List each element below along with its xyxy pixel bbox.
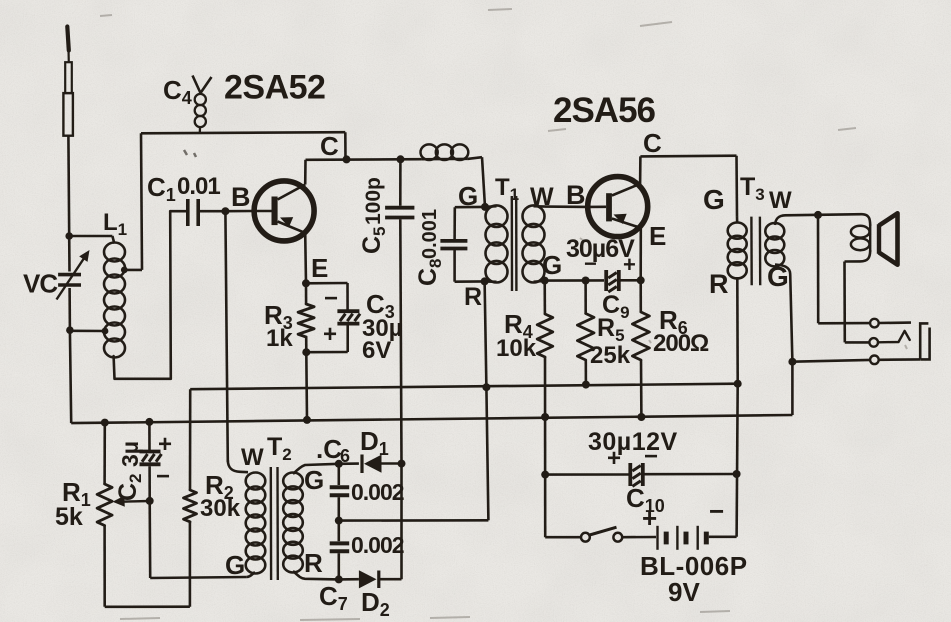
wire <box>453 207 456 240</box>
svg-text:W: W <box>241 444 264 471</box>
node C5 tee <box>397 155 405 163</box>
node VC-L1tap <box>66 326 74 334</box>
label minus C10 <box>644 443 658 470</box>
wire <box>709 535 737 538</box>
svg-text:+: + <box>323 321 337 348</box>
wire <box>67 136 70 236</box>
label R T3 <box>709 269 729 299</box>
transformer T1 primary <box>486 205 508 282</box>
node R6 bus2 <box>637 413 645 421</box>
svg-text:30k: 30k <box>200 495 241 522</box>
capacitor C4 gimmick <box>193 76 212 134</box>
node R5 top <box>582 277 590 285</box>
wiper arrow <box>113 496 150 507</box>
svg-text:G: G <box>225 550 245 580</box>
svg-text:C: C <box>643 128 662 158</box>
transformer T3 secondary <box>765 223 784 266</box>
transformer T2 secondary <box>283 464 339 580</box>
wire <box>344 132 347 159</box>
svg-text:VC: VC <box>23 269 58 299</box>
label minus battery <box>709 496 724 526</box>
node R3C3 bus2 <box>303 416 311 424</box>
wire <box>346 325 349 352</box>
svg-text:+: + <box>158 431 172 458</box>
node jack tip feed <box>814 211 822 219</box>
label minus C2 <box>156 463 170 490</box>
label D1 <box>360 426 389 459</box>
svg-text:30µ12V: 30µ12V <box>588 428 678 456</box>
label 2SA52 <box>224 69 325 107</box>
capacitor C3 <box>337 311 360 323</box>
jack contact 2 <box>869 338 878 347</box>
wire <box>339 519 489 522</box>
antenna mast tip <box>67 27 69 51</box>
wire <box>791 362 794 415</box>
label T1 <box>495 174 519 204</box>
label G T3 bottom <box>767 261 789 292</box>
svg-text:E: E <box>311 253 328 283</box>
label C9 <box>602 291 630 322</box>
wire <box>68 236 71 272</box>
label B Q1 <box>231 182 251 212</box>
wire <box>736 277 739 384</box>
jack contact 1 <box>870 319 879 328</box>
label W T2 <box>241 444 264 471</box>
label G T1 top <box>458 181 478 211</box>
svg-text:25k: 25k <box>590 342 631 369</box>
svg-text:−: − <box>709 496 724 526</box>
node C1-B <box>221 207 229 215</box>
wire <box>545 536 581 539</box>
label plus C3 <box>323 321 337 348</box>
resistor R6 <box>632 280 649 417</box>
label C Q2 <box>643 128 662 158</box>
wire <box>482 157 485 207</box>
wire <box>150 577 246 578</box>
label minus C3 <box>324 285 338 312</box>
svg-text:10k: 10k <box>496 335 537 362</box>
label 0.002 upper <box>351 479 404 505</box>
battery BL-006P <box>658 526 707 550</box>
wire <box>879 358 920 361</box>
wire <box>306 351 347 354</box>
wire <box>114 211 171 379</box>
node antenna-L1 <box>65 232 73 240</box>
resistor R5 <box>577 281 594 385</box>
svg-text:E: E <box>649 221 666 251</box>
wire speaker return <box>843 262 846 343</box>
label BL-006P <box>640 551 748 581</box>
wire <box>141 133 142 270</box>
node wiper <box>146 497 154 505</box>
svg-text:+: + <box>623 252 636 277</box>
label T3 <box>740 173 765 204</box>
svg-text:+: + <box>607 445 621 472</box>
svg-text:B: B <box>566 180 586 210</box>
node T1 G <box>481 203 489 211</box>
transformer T1 secondary <box>523 205 545 282</box>
label 30u6V C9 <box>566 235 635 263</box>
label minus C9 <box>584 251 597 276</box>
label C4 <box>163 75 192 108</box>
wire <box>485 281 487 387</box>
label R T2 sec bottom <box>304 548 323 578</box>
svg-text:0.002: 0.002 <box>351 532 404 558</box>
diode D2 <box>359 570 402 588</box>
label G T2 sec top <box>304 465 324 495</box>
wire <box>818 322 870 325</box>
wire <box>306 282 348 285</box>
svg-text:G: G <box>703 184 725 215</box>
node bus1 right end <box>734 380 742 388</box>
svg-text:+: + <box>642 503 657 533</box>
label VC <box>23 269 58 299</box>
wire <box>486 387 488 520</box>
label R2 30k <box>200 470 241 522</box>
label C1 0.01 <box>147 172 220 205</box>
label E Q2 <box>649 221 666 251</box>
switch S1 <box>581 527 622 541</box>
label 9V <box>668 577 700 607</box>
transformer T3 primary <box>728 223 747 279</box>
label 0.002 lower <box>351 532 404 558</box>
wire T3 sec bottom <box>775 265 792 362</box>
label R4 10k <box>496 309 537 362</box>
wire <box>148 501 151 578</box>
scan smudges <box>184 150 196 157</box>
node D1 right <box>398 460 406 468</box>
svg-text:3µ: 3µ <box>117 441 143 467</box>
transformer T3 core <box>751 217 760 286</box>
jack spring <box>878 331 910 342</box>
capacitor C6 0.002 <box>330 464 350 521</box>
svg-text:.C: .C <box>316 434 342 464</box>
wire <box>845 341 870 344</box>
speaker horn <box>877 213 898 264</box>
label C2 3u <box>114 441 145 501</box>
label plus C10 <box>607 445 621 472</box>
node T1 sec bottom <box>541 277 549 285</box>
capacitor C9 <box>606 270 619 292</box>
node collector bus <box>343 155 351 163</box>
svg-text:−: − <box>584 251 597 276</box>
label C6 <box>316 434 350 466</box>
svg-text:0.002: 0.002 <box>351 479 404 505</box>
wire <box>735 156 738 224</box>
node T1R bus1 <box>482 383 490 391</box>
svg-text:W: W <box>769 187 792 214</box>
wire <box>453 249 456 282</box>
label C10 <box>626 483 665 516</box>
node L1 tap bottom <box>102 328 109 335</box>
label G T1 bottom <box>542 250 562 280</box>
node E block top <box>302 279 310 287</box>
antenna segment 2 <box>63 93 73 136</box>
capacitor C5 <box>385 159 414 463</box>
svg-text:2SA56: 2SA56 <box>553 91 656 130</box>
wire collector Q2 <box>639 156 642 183</box>
resistor R3 <box>298 283 314 352</box>
antenna segment 1 <box>65 62 72 93</box>
svg-text:G: G <box>542 250 562 280</box>
node R5 bus1 <box>582 381 590 389</box>
wire <box>70 330 71 423</box>
wire <box>68 288 71 330</box>
svg-text:R: R <box>464 283 482 311</box>
wire <box>817 215 820 323</box>
wire <box>105 605 190 608</box>
label B Q2 <box>566 180 586 210</box>
node C6 top <box>335 460 343 468</box>
svg-text:−: − <box>324 285 338 312</box>
wire bus2 <box>71 415 792 423</box>
svg-text:6V: 6V <box>362 337 391 364</box>
label T2 <box>267 433 292 464</box>
wire <box>70 329 105 332</box>
wire <box>400 464 403 580</box>
label 6V <box>362 337 391 364</box>
wire <box>485 206 545 282</box>
svg-text:2SA52: 2SA52 <box>224 69 325 107</box>
svg-text:R: R <box>304 548 323 578</box>
wire <box>621 279 641 282</box>
svg-text:B: B <box>231 182 251 212</box>
wire <box>622 536 656 539</box>
node L1 tap upper <box>121 267 128 274</box>
wire <box>189 389 192 490</box>
label R1 5k <box>55 477 91 531</box>
resistor R1 <box>97 423 112 607</box>
wire <box>640 154 736 157</box>
label 30u <box>362 315 403 342</box>
resistor R4 <box>537 281 553 538</box>
wire T2 W lead <box>225 211 227 462</box>
svg-text:−: − <box>644 443 658 470</box>
capacitor C8 <box>440 241 467 249</box>
transistor Q2 2SA56 <box>588 177 648 237</box>
node R4 bus2 <box>541 413 549 421</box>
label 30u12V <box>588 428 678 456</box>
wire C10 rail <box>545 473 736 476</box>
wire <box>792 360 870 362</box>
wire T3 sec top <box>775 214 862 225</box>
wire base Q2 <box>545 205 588 208</box>
wire <box>67 49 70 63</box>
node C10 right <box>733 470 741 478</box>
wire <box>339 462 359 465</box>
label C3 <box>366 289 395 322</box>
wire <box>346 283 349 310</box>
inductor L1 <box>104 243 125 358</box>
label D2 <box>361 587 390 620</box>
jack contact 3 <box>870 356 879 365</box>
label 2SA56 <box>553 91 656 130</box>
wire bus1 <box>190 384 738 390</box>
capacitor C1 <box>170 199 225 226</box>
svg-text:0.001: 0.001 <box>419 209 441 259</box>
inductor RF choke <box>421 144 469 160</box>
label E Q1 <box>311 253 328 283</box>
label W T3 <box>769 187 792 214</box>
wire top bus <box>141 132 345 133</box>
transformer T1 core <box>512 196 517 291</box>
wire <box>737 384 738 537</box>
capacitor VC arrow <box>57 250 90 300</box>
wire <box>455 280 485 283</box>
jack plug body <box>920 323 929 359</box>
wire base Q1 <box>225 210 252 213</box>
wire <box>339 578 359 581</box>
svg-text:9V: 9V <box>668 577 700 607</box>
label R5 25k <box>590 314 631 369</box>
svg-text:R: R <box>709 269 729 299</box>
wire <box>467 157 482 159</box>
node C2 top <box>145 418 153 426</box>
svg-text:200Ω: 200Ω <box>653 330 709 357</box>
capacitor C2 <box>140 422 162 501</box>
node C7 bottom <box>335 575 343 583</box>
capacitor VC plates <box>58 275 81 285</box>
label L1 <box>103 209 127 239</box>
wire <box>545 279 604 282</box>
node AGC mid <box>335 517 343 525</box>
svg-text:−: − <box>156 463 170 490</box>
node E-C9 <box>637 276 645 284</box>
svg-text:5k: 5k <box>55 503 83 531</box>
capacitor C7 0.002 <box>330 521 350 580</box>
label C8 0.001 <box>414 209 445 286</box>
node E block bottom <box>302 348 310 356</box>
label R3 1k <box>264 300 293 352</box>
label C5 100p <box>358 177 389 254</box>
diode D1 <box>362 455 402 474</box>
label plus battery <box>642 503 657 533</box>
wire <box>124 269 142 272</box>
node C10 left <box>541 471 549 479</box>
label plus C9 <box>623 252 636 277</box>
label R6 200 <box>653 305 709 357</box>
node T1 R <box>481 277 489 285</box>
speaker coil <box>845 214 871 261</box>
wire <box>69 236 114 244</box>
svg-text:G: G <box>458 181 478 211</box>
wire emitter Q1 <box>304 233 307 283</box>
transistor Q1 2SA52 <box>252 181 314 241</box>
label G T2 bottom <box>225 550 245 580</box>
svg-text:C: C <box>320 131 339 161</box>
svg-text:G: G <box>304 465 324 495</box>
svg-text:100p: 100p <box>362 177 385 225</box>
label W T1 <box>530 183 554 211</box>
label plus C2 <box>158 431 172 458</box>
transformer T2 primary <box>228 460 265 577</box>
svg-text:0.01: 0.01 <box>177 173 220 200</box>
wire collector Q1 <box>304 160 307 185</box>
wire <box>306 158 422 161</box>
capacitor C10 <box>630 463 643 486</box>
label C7 <box>319 581 348 614</box>
transformer T2 core <box>271 467 278 580</box>
label R T1 bottom <box>464 283 482 311</box>
label C Q1 <box>320 131 339 161</box>
label G T3 top <box>703 184 725 215</box>
svg-text:1k: 1k <box>266 325 293 352</box>
wire <box>305 352 308 420</box>
node R1 top <box>101 419 109 427</box>
wire <box>879 321 911 324</box>
resistor R2 <box>184 490 197 607</box>
node jack sleeve <box>788 358 796 366</box>
wire emitter Q2 <box>639 228 642 280</box>
wire <box>455 206 485 209</box>
